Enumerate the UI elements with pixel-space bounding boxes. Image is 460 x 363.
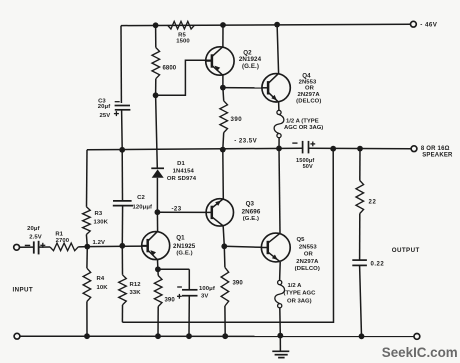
capacitor C3 20uf 25V [98, 98, 131, 119]
capacitor 0.22 (zobel) [352, 214, 384, 337]
wire: Q2 base L-wire [156, 60, 213, 95]
wire: -23.5V rail (left section) [87, 148, 302, 150]
wire: Q4 emitter to fuse [278, 102, 280, 110]
resistor R5 1500 [168, 21, 195, 44]
svg-text:25V: 25V [100, 113, 111, 119]
terminal: -46V supply [411, 21, 438, 28]
svg-text:1N4154: 1N4154 [173, 168, 195, 174]
fuse F2 1/2A (Q5 emitter) [275, 280, 316, 307]
node: bottom rail junction 390(Q3) [222, 333, 228, 339]
node: C2/R12 junction on Q1 base line [119, 243, 125, 249]
transistor Q5 2N553/2N297A [261, 233, 320, 272]
wire: Q3 base line (-23V node) [157, 206, 206, 213]
wire: Q1 emitter [157, 260, 159, 269]
svg-text:6800: 6800 [163, 66, 177, 72]
wire: Q3 emitter [223, 226, 224, 246]
wire: D1 to Q1 collector node [156, 178, 158, 212]
ground [272, 336, 289, 358]
diode D1 1N4154/SD974 [151, 161, 196, 182]
svg-text:2N1925: 2N1925 [173, 243, 196, 250]
label: INPUT [13, 287, 34, 294]
resistor R3 130K [83, 150, 109, 247]
node: Q1 emitter junction [155, 266, 161, 272]
wire: top rail corner down to C3 [120, 26, 122, 103]
svg-text:390: 390 [231, 116, 243, 123]
wire: ground/bottom rail [17, 335, 414, 337]
wire: output line to speaker [309, 147, 412, 149]
capacitor C2 120uuf [113, 150, 152, 246]
svg-text:D1: D1 [177, 161, 185, 167]
svg-text:R3: R3 [95, 211, 103, 217]
node: top rail junction at Q4 collector [274, 22, 280, 28]
svg-text:2N297A: 2N297A [296, 259, 319, 265]
svg-text:2.5V: 2.5V [29, 235, 42, 241]
svg-text:1500: 1500 [176, 39, 190, 45]
node: rail junction Q3 collector [220, 147, 226, 153]
svg-text:OR SD974: OR SD974 [167, 176, 197, 182]
svg-text:3V: 3V [201, 294, 208, 300]
svg-text:R12: R12 [130, 282, 142, 288]
svg-text:1/2 A (TYPE: 1/2 A (TYPE [286, 118, 319, 124]
resistor 6800 [152, 25, 177, 95]
svg-text:2N1924: 2N1924 [239, 56, 262, 63]
svg-text:1.2V: 1.2V [93, 240, 106, 246]
transistor Q3 2N696 [206, 199, 261, 226]
label: -23.5V net [234, 138, 257, 145]
wire: Q1 collector [156, 212, 158, 231]
svg-text:INPUT: INPUT [13, 287, 34, 294]
svg-text:(TYPE AGC: (TYPE AGC [284, 291, 317, 297]
wire: Q4 collector to top rail [277, 25, 279, 74]
node: bottom rail junction 100uf [186, 333, 192, 339]
node: Q3 emitter junction [221, 243, 227, 249]
wire: Q3 collector to rail [222, 150, 225, 199]
svg-text:R1: R1 [55, 232, 63, 238]
node: 22 ohm tap junction [357, 146, 363, 152]
svg-text:2N696: 2N696 [242, 209, 261, 216]
svg-text:2700: 2700 [56, 238, 70, 244]
svg-text:- 46V: - 46V [420, 22, 437, 29]
svg-text:OR: OR [304, 252, 314, 258]
node: Q2 emitter / Q4 base junction [220, 85, 226, 91]
wire: C3 to -23.5V rail [121, 110, 124, 150]
svg-text:33K: 33K [130, 290, 142, 296]
svg-text:-23: -23 [172, 206, 182, 213]
svg-text:R4: R4 [97, 276, 105, 282]
node: Q1 collector / Q3 base junction [155, 209, 161, 215]
wire: Q1 base line [87, 245, 148, 248]
svg-text:(G.E.): (G.E.) [176, 251, 192, 257]
svg-text:(DELCO): (DELCO) [295, 266, 320, 272]
node: bottom rail junction R4 [84, 333, 90, 339]
svg-text:1/2 A: 1/2 A [288, 283, 303, 289]
label: OUTPUT [392, 247, 420, 254]
wire: Q2 collector to top rail [222, 25, 224, 47]
wire: Q5 base [224, 246, 261, 247]
svg-text:(G.E.): (G.E.) [243, 216, 259, 222]
svg-text:130K: 130K [94, 219, 109, 225]
resistor 390 (Q3 collector... emitter leg) [221, 246, 243, 336]
node: Q1 base bias junction (1.2V) [84, 240, 105, 249]
svg-text:10K: 10K [97, 285, 109, 291]
resistor 22 (zobel) [356, 149, 377, 214]
node: top rail junction at Q2 collector [220, 22, 226, 28]
svg-text:20μf: 20μf [27, 226, 40, 232]
node: bottom rail junction zobel [359, 333, 365, 339]
resistor R1 2700 [50, 232, 78, 251]
svg-text:390: 390 [165, 298, 176, 304]
svg-text:8 OR 16Ω: 8 OR 16Ω [421, 146, 450, 152]
capacitor 100uf 3V (Q1 emitter bypass) [158, 269, 215, 336]
svg-text:20μf: 20μf [98, 104, 111, 110]
wire: Q2 emitter [222, 75, 224, 87]
node: feedback tap junction [330, 146, 336, 152]
resistor 390 (Q2 emitter) [220, 88, 242, 150]
wire: input to C4 [19, 246, 33, 248]
svg-text:120μμf: 120μμf [133, 204, 153, 210]
svg-text:(G.E.): (G.E.) [242, 63, 259, 70]
svg-text:Q1: Q1 [176, 235, 185, 242]
wire: -46V top supply rail [121, 24, 411, 25]
resistor R4 10K [83, 247, 108, 337]
wire: C4 to R1 [39, 246, 50, 248]
svg-text:AGC OR 3AG): AGC OR 3AG) [284, 125, 323, 131]
node: bottom rail junction F2/ground [277, 333, 283, 339]
fuse F1 1/2A (Q4 emitter) [274, 110, 323, 137]
node: bottom rail junction 390(Q1) [155, 333, 161, 339]
svg-text:0.22: 0.22 [371, 261, 385, 267]
wire: 6800 junction down across rail to D1 [156, 95, 158, 168]
capacitor 1500uf 50V (output coupling) [292, 141, 315, 170]
node: 6800 bottom junction [153, 92, 159, 98]
terminal: speaker output [411, 146, 453, 159]
svg-text:OR 3AG): OR 3AG) [287, 299, 312, 305]
svg-text:OUTPUT: OUTPUT [392, 247, 420, 254]
svg-text:100μf: 100μf [199, 286, 215, 292]
transistor Q2 2N1924 [205, 47, 261, 76]
wire: R1 to base node [78, 246, 87, 248]
svg-text:Q5: Q5 [296, 237, 305, 243]
svg-text:50V: 50V [303, 164, 313, 170]
capacitor 20uf 2.5V (input) [25, 226, 46, 254]
wire: fuse F2 to ground rail [279, 308, 282, 336]
resistor 390 (Q1 emitter) [154, 269, 175, 336]
wire: fuse F1 to output node [278, 138, 280, 149]
wire: Q5 collector to output node [279, 148, 280, 233]
resistor R12 33K [119, 246, 142, 322]
svg-text:OR: OR [305, 86, 315, 92]
svg-text:2N553: 2N553 [299, 245, 317, 251]
wire: Q5 emitter to fuse [279, 262, 282, 280]
svg-text:390: 390 [233, 281, 244, 287]
svg-text:22: 22 [369, 199, 377, 205]
transistor Q4 2N553/2N297A [261, 73, 321, 105]
wire: feedback from output to R12 [122, 149, 333, 323]
svg-text:2N297A: 2N297A [297, 92, 320, 98]
watermark SeekIC.com [382, 345, 458, 360]
svg-text:SeekIC.com: SeekIC.com [382, 345, 458, 360]
transistor Q1 2N1925 [141, 231, 196, 260]
terminal: input [14, 244, 20, 250]
node: output node junction (fuses/Q5 collector) [276, 146, 282, 152]
terminal: input ground [14, 333, 20, 339]
svg-text:C2: C2 [137, 195, 145, 201]
svg-text:SPEAKER: SPEAKER [422, 152, 453, 158]
svg-text:(DELCO): (DELCO) [296, 99, 321, 105]
svg-text:Q3: Q3 [246, 201, 255, 208]
wire: Q4 base [223, 87, 262, 89]
node: top rail junction at 6800 [153, 22, 159, 28]
svg-text:- 23.5V: - 23.5V [234, 138, 257, 145]
node: rail junction C3/C2 [119, 147, 125, 153]
terminal: output ground [414, 334, 420, 340]
